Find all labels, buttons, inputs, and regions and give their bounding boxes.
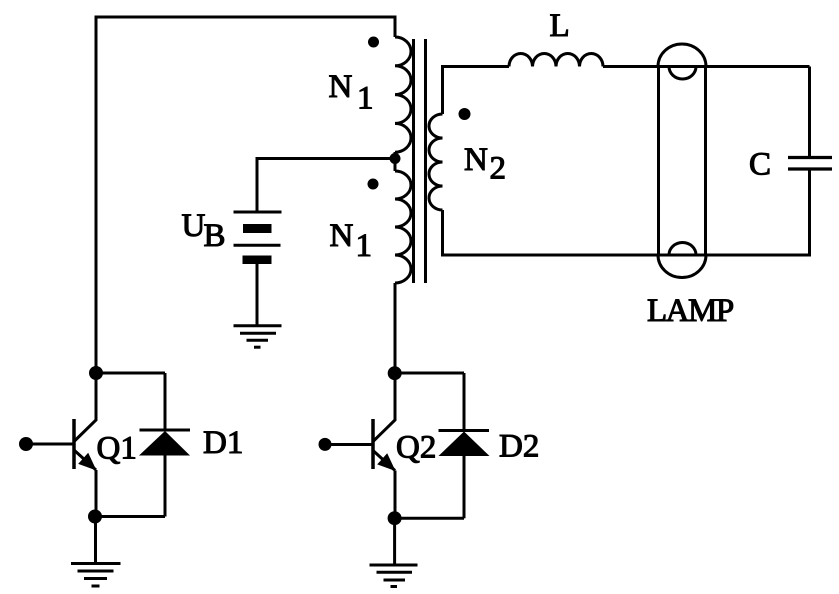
svg-text:N: N [464,142,488,178]
svg-text:Q1: Q1 [97,430,137,466]
svg-text:LAMP: LAMP [647,293,734,329]
svg-text:N: N [329,69,353,105]
svg-text:L: L [550,8,570,44]
svg-text:D2: D2 [499,429,539,465]
svg-text:C: C [749,146,771,182]
svg-text:1: 1 [356,228,373,264]
svg-text:2: 2 [490,150,507,186]
svg-text:1: 1 [357,81,374,117]
svg-text:U: U [182,208,206,244]
svg-text:B: B [204,218,226,254]
svg-text:Q2: Q2 [396,430,436,466]
svg-text:N: N [330,218,354,254]
svg-text:D1: D1 [203,425,243,461]
